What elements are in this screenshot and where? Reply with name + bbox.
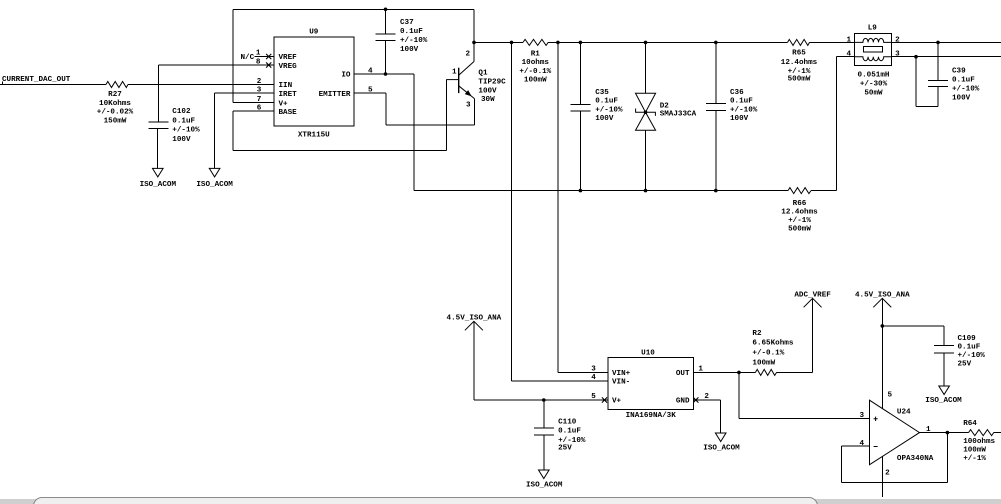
svg-text:+/-1%: +/-1% [788,68,811,76]
svg-text:1: 1 [847,36,852,44]
resistor R66 [788,188,811,194]
capacitor C109 [934,346,954,353]
svg-text:4.5V_ISO_ANA: 4.5V_ISO_ANA [447,315,502,323]
svg-text:OUT: OUT [676,370,690,378]
capacitor C36 [706,104,726,111]
junction R1 left sense [510,41,514,45]
wire C35 top stem [579,42,581,104]
svg-text:2: 2 [895,36,900,44]
wire riser to L9 pin4 [836,57,838,191]
wire VREG net y65 [159,64,274,66]
junction R1 right sense [556,41,560,45]
wire C37 top stem [385,9,387,34]
no-connect X VREF [266,54,271,59]
svg-text:1: 1 [452,69,457,77]
wire EMITTER down x386 [385,93,387,125]
ground ISO_ACOM C110 [539,470,550,479]
wire VREF pin stub [262,56,274,58]
svg-text:0.1uF: 0.1uF [172,117,195,125]
svg-text:U9: U9 [309,29,319,37]
resistor R27 [106,82,128,88]
svg-text:XTR115U: XTR115U [298,132,330,140]
wire D2 top stem [645,42,647,93]
wire BASE pin6 [233,110,274,112]
svg-text:L9: L9 [868,25,878,33]
inductor L9 [854,34,891,66]
IC U9 box [274,37,354,126]
junction U10 OUT node [737,371,741,375]
wire U24 pin2 drop [881,456,883,497]
wire Q1 emitter drop [473,99,475,126]
svg-text:CURRENT_DAC_OUT: CURRENT_DAC_OUT [2,76,71,84]
junction C37 / top rail [384,8,388,12]
svg-text:100mW: 100mW [524,77,547,85]
svg-text:0.1uF: 0.1uF [400,28,423,36]
resistor R1 [523,39,548,45]
wire sense riser VIN+ x557.9 [557,42,559,372]
junction C36 top [714,41,718,45]
svg-text:0.051mH: 0.051mH [858,72,890,80]
svg-text:+/-0.1%: +/-0.1% [752,350,784,358]
fraction bar N/C 1/8 [255,55,262,57]
svg-text:2: 2 [466,51,471,59]
wire U10 OUT to R2 [694,371,756,373]
svg-text:R65: R65 [792,50,806,58]
wire C110 top stem [543,400,545,428]
wire VIN+ pin3 horizontal [558,371,608,373]
svg-text:TIP29C: TIP29C [478,78,506,86]
svg-text:3: 3 [591,365,596,373]
svg-text:+/-10%: +/-10% [172,127,200,135]
capacitor C37 [376,34,396,41]
svg-text:VIN-: VIN- [612,379,630,387]
wire feedback down x841.4 [840,446,842,482]
wire riser x158.6 to C102 [158,65,160,122]
svg-text:100V: 100V [400,46,419,54]
svg-text:0.1uF: 0.1uF [595,98,618,106]
svg-text:3: 3 [860,412,865,420]
svg-text:IO: IO [341,72,351,80]
svg-text:C109: C109 [958,335,977,343]
svg-text:+/-10%: +/-10% [595,106,623,114]
svg-text:ISO_ACOM: ISO_ACOM [140,181,177,189]
svg-text:V+: V+ [612,398,622,406]
wire U10 GND drop [720,400,722,433]
resistor R2 [755,369,776,375]
svg-text:+/-0.02%: +/-0.02% [97,109,134,117]
wire feedback riser x947.4 [946,433,948,483]
svg-text:R27: R27 [108,91,122,99]
wire IRET pin3 [215,92,274,94]
wire U24 output to R64 [920,432,969,434]
svg-text:100mW: 100mW [963,447,986,455]
no-connect X VREG [266,62,271,67]
junction C110 / U10 V+ [542,398,546,402]
ground ISO_ACOM C109 [939,386,950,395]
svg-text:ISO_ACOM: ISO_ACOM [196,181,233,189]
svg-text:+/-10%: +/-10% [952,85,980,93]
wire C35 bottom stem [579,111,581,191]
wire main out y42.4 segment a [474,41,523,43]
wire ADC_VREF stem [812,298,814,372]
ground ISO_ACOM C102 [153,168,164,177]
svg-text:OPA340NA: OPA340NA [897,455,934,463]
svg-text:10Kohms: 10Kohms [99,100,131,108]
svg-text:100V: 100V [952,94,971,102]
wire V+ pin7 [233,102,274,104]
wire main out y42.4 segment b [548,41,788,43]
svg-text:1: 1 [698,365,703,373]
op-amp U24 minus mark [874,446,878,448]
svg-text:ISO_ACOM: ISO_ACOM [925,397,962,405]
svg-text:ISO_ACOM: ISO_ACOM [526,481,563,489]
svg-text:100mW: 100mW [752,360,775,368]
svg-text:R1: R1 [531,51,541,59]
svg-text:100V: 100V [478,87,497,95]
wire C39 top stem [937,42,939,80]
transistor Q1 [446,42,474,98]
svg-text:+/-10%: +/-10% [958,352,986,360]
svg-text:0.1uF: 0.1uF [730,98,753,106]
wire C109 horizontal [882,325,944,327]
svg-text:INA169NA/3K: INA169NA/3K [626,412,677,420]
wire main out y42.4 segment c [810,41,855,43]
svg-text:+/-10%: +/-10% [400,37,428,45]
svg-text:C39: C39 [952,67,966,75]
svg-text:50mW: 50mW [864,89,883,97]
junction U24 output feedback [946,431,950,435]
wire to U24 +in y418 [739,418,870,420]
svg-text:25V: 25V [958,361,972,369]
svg-text:5: 5 [591,393,596,401]
IC U10 box [608,358,694,410]
wire R2 to ADC_VREF corner [777,371,813,373]
power 4.5V_ISO_ANA left [465,321,483,330]
svg-text:100V: 100V [595,115,614,123]
junction D2 center crossing [644,110,648,114]
ground ISO_ACOM U10 GND [715,433,726,442]
wire 4.5V stem 1 [473,321,475,400]
wire VIN- pin4 horizontal [512,380,609,382]
junction C39 bottom net [914,55,918,59]
power 4.5V_ISO_ANA right [873,298,891,307]
node CURRENT_DAC_OUT tick [2,82,4,85]
capacitor C110 [534,428,554,435]
wire U10 GND stub [694,399,721,401]
svg-text:5: 5 [888,392,893,400]
wire C39 elbow riser [915,57,917,107]
wire IO pin4 to x413.8 [354,73,414,75]
wire L9 pin4 stub [837,56,855,58]
wire BASE down x233 [232,111,234,150]
junction D2 bottom [644,189,648,193]
svg-text:6: 6 [257,105,262,113]
taskbar grey strip [0,499,1001,504]
wire C36 top stem [715,42,717,103]
wire C39 elbow horizontal [916,105,938,107]
svg-text:25V: 25V [558,445,572,453]
svg-text:Q1: Q1 [478,70,488,78]
wire R27 to U9 IIN pin2 [128,84,274,86]
svg-text:ISO_ACOM: ISO_ACOM [703,444,740,452]
svg-text:4.5V_ISO_ANA: 4.5V_ISO_ANA [855,292,910,300]
diode D2 SMAJ33CA [636,93,656,130]
power ADC_VREF [804,298,822,307]
svg-text:100ohms: 100ohms [963,438,995,446]
wire left rect vertical x233 top [232,9,234,102]
svg-text:4: 4 [847,51,852,59]
svg-text:12.4ohms: 12.4ohms [781,209,818,217]
svg-text:+/-30%: +/-30% [860,81,888,89]
svg-text:N/C: N/C [241,54,255,62]
svg-text:V+: V+ [279,100,289,108]
svg-text:100V: 100V [730,115,749,123]
wire 4.5V stem 2 to U24 pin5 [881,298,883,408]
wire sense riser VIN- x511.5 [511,42,513,381]
svg-text:ADC_VREF: ADC_VREF [794,292,831,300]
op-amp U24 plus mark [874,417,878,421]
svg-text:+/-10%: +/-10% [558,437,586,445]
svg-text:4: 4 [368,68,373,76]
svg-text:7: 7 [257,96,262,104]
svg-text:R64: R64 [963,420,977,428]
svg-text:C102: C102 [172,108,191,116]
junction 4.5V / C109 [881,324,885,328]
svg-text:+/-1%: +/-1% [963,455,986,463]
svg-text:0.1uF: 0.1uF [952,76,975,84]
svg-text:4: 4 [860,440,865,448]
wire C110 bottom stem [543,435,545,470]
svg-text:6.65Kohms: 6.65Kohms [752,340,793,348]
wire U10 V+ horizontal [474,399,608,401]
junction D2 top [644,41,648,45]
svg-text:R66: R66 [793,200,807,208]
wire Q1 base riser x446.3 [445,80,447,151]
svg-text:10ohms: 10ohms [522,59,550,67]
svg-text:GND: GND [676,398,690,406]
junction C35 bottom [579,189,583,193]
svg-text:+/-0.1%: +/-0.1% [519,68,551,76]
svg-text:5: 5 [368,87,373,95]
svg-text:VREF: VREF [279,54,298,62]
svg-text:3: 3 [466,102,471,110]
svg-text:U10: U10 [641,350,655,358]
svg-text:4: 4 [591,374,596,382]
svg-text:U24: U24 [897,409,911,417]
resistor R65 [788,39,810,45]
ground ISO_ACOM IRET [209,168,220,177]
wire IRET ground riser [214,93,216,168]
svg-text:12.4ohms: 12.4ohms [781,59,818,67]
wire BASE horizontal y150.5 [233,150,446,152]
svg-text:C37: C37 [400,19,414,27]
capacitor C39 [928,81,948,87]
svg-text:R2: R2 [752,330,762,338]
svg-text:+/-10%: +/-10% [730,106,758,114]
svg-text:IIN: IIN [279,82,293,90]
junction C37 / IO wire [384,72,388,76]
svg-text:D2: D2 [660,102,670,110]
junction C36 bottom [714,189,718,193]
wire emitter horizontal y125 [386,124,474,126]
svg-text:EMITTER: EMITTER [319,91,351,99]
wire IO down x413.8 [413,74,415,191]
svg-text:500mW: 500mW [788,226,811,234]
svg-text:1: 1 [926,426,931,434]
svg-text:VIN+: VIN+ [612,370,631,378]
capacitor C35 [570,104,590,111]
wire top rail y9.3 [233,8,474,10]
svg-text:C110: C110 [558,418,577,426]
taskbar tab [33,497,818,504]
svg-text:2: 2 [704,393,709,401]
pin X U10 GND [693,397,698,402]
svg-text:2: 2 [257,78,262,86]
junction C35 top [579,41,583,45]
svg-text:SMAJ33CA: SMAJ33CA [660,110,697,118]
svg-text:IRET: IRET [279,91,298,99]
svg-text:8: 8 [256,59,261,67]
svg-text:2: 2 [885,470,890,478]
wire D2 bottom stem [645,130,647,190]
svg-text:0.1uF: 0.1uF [958,344,981,352]
wire L9 pin3 out [892,56,1001,58]
svg-text:VREG: VREG [279,63,298,71]
wire C109 bottom stem [943,353,945,386]
wire OUT node down x738.9 [738,372,740,418]
wire CURRENT_DAC_OUT to R27 [0,84,106,86]
capacitor C102 [157,129,159,169]
svg-text:0.1uF: 0.1uF [558,428,581,436]
svg-text:C36: C36 [730,89,744,97]
wire U24 -in stub [841,445,869,447]
wire bottom rail y190.6 left of R66 [414,190,788,192]
svg-text:C35: C35 [595,89,609,97]
svg-text:3: 3 [257,87,262,95]
wire C109 top stem [943,326,945,346]
wire EMITTER pin5 [354,92,386,94]
junction C39 top [936,41,940,45]
svg-text:150mW: 150mW [104,117,127,125]
wire C39 bottom stem [937,87,939,107]
wire R64 out stub [994,432,1001,434]
svg-text:100V: 100V [172,136,191,144]
svg-text:30W: 30W [481,96,495,104]
op-amp U24 [870,400,920,465]
wire bottom rail y190.6 right of R66 [811,190,837,192]
wire L9 pin2 out [892,41,1001,43]
svg-text:3: 3 [895,51,900,59]
svg-text:500mW: 500mW [788,76,811,84]
svg-text:BASE: BASE [279,109,298,117]
wire C36 bottom stem [715,110,717,190]
wire x474 rail down to Q1 collector [473,9,475,61]
wire C37 bottom stem [385,41,387,74]
resistor R64 [969,430,994,436]
wire feedback horizontal y482.3 [841,481,947,483]
svg-text:+/-1%: +/-1% [788,217,811,225]
pin X U10 V+ [602,397,607,402]
junction Q1 collector node [472,41,476,45]
